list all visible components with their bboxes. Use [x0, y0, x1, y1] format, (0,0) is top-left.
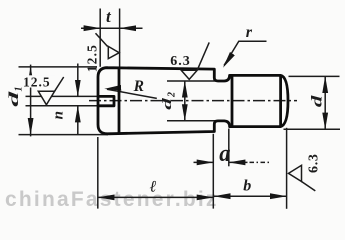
svg-text:d: d [159, 97, 174, 109]
svg-text:d: d [6, 91, 21, 107]
svg-text:2: 2 [166, 92, 177, 98]
svg-text:a: a [219, 141, 231, 168]
svg-text:b: b [243, 177, 251, 194]
svg-text:6.3: 6.3 [170, 54, 191, 69]
svg-text:r: r [246, 24, 253, 41]
svg-text:1: 1 [14, 87, 25, 92]
svg-text:6.3: 6.3 [307, 153, 322, 173]
svg-text:chinaFastener.biz: chinaFastener.biz [5, 188, 219, 211]
svg-text:d: d [309, 94, 325, 107]
svg-text:12.5: 12.5 [84, 44, 99, 72]
svg-text:12.5: 12.5 [23, 75, 51, 90]
svg-text:ℓ: ℓ [149, 178, 157, 195]
svg-text:n: n [51, 111, 67, 119]
svg-text:R: R [133, 78, 144, 95]
